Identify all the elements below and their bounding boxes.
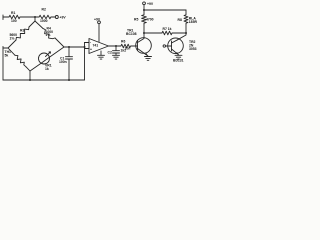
resistor R2 [38, 15, 52, 19]
wire bridge arm bottom-right upper [49, 47, 64, 57]
wire Q2 emitter lead [178, 54, 180, 56]
svg-text:+9V: +9V [94, 18, 101, 22]
node riser crossing [84, 46, 86, 48]
resistor R3 (bridge top-left arm) [16, 27, 29, 40]
capacitor C1 [66, 57, 73, 59]
wire bridge output to op-amp [64, 46, 85, 48]
svg-text:1k: 1k [45, 67, 49, 71]
terminal: left supply tick [2, 15, 4, 20]
svg-text:+: + [90, 47, 92, 51]
wire 0V bottom rail [3, 79, 85, 81]
svg-text:R5: R5 [134, 17, 138, 21]
terminal ring Q2 base [163, 45, 165, 47]
ground Q1 [145, 57, 152, 61]
svg-text:1%: 1% [10, 36, 15, 40]
thermistor TH1 (bridge bottom-left arm) [15, 55, 26, 67]
svg-text:+9V: +9V [60, 15, 67, 19]
op-amp V- pin [100, 51, 102, 55]
node A junction [34, 16, 36, 18]
wire R1 to node A [21, 16, 38, 18]
wire top supply rail right [144, 9, 186, 11]
wire bridge arm bottom-left upper [8, 48, 15, 55]
wire Q2 base feed [166, 45, 172, 47]
ground C2 [113, 55, 120, 59]
Q2 emitter arrow [176, 52, 179, 55]
svg-text:5k: 5k [5, 54, 9, 58]
node bridge bottom junction [29, 79, 31, 81]
svg-text:3053: 3053 [189, 47, 197, 51]
wire R5 bottom lead [143, 24, 145, 33]
svg-text:1000: 1000 [40, 19, 48, 23]
svg-text:100n: 100n [59, 60, 67, 64]
wire right riser to op-amp input [84, 43, 86, 81]
wire bridge bottom node stub [29, 71, 31, 80]
svg-text:BC108: BC108 [126, 32, 137, 36]
resistor R6 [120, 44, 132, 48]
svg-text:+9V: +9V [147, 2, 154, 6]
resistor R1 [8, 15, 21, 19]
wire op-amp output [109, 45, 121, 47]
wire node A to bridge top [34, 17, 36, 21]
wire R2 to terminal [52, 16, 55, 18]
wire bridge left node to left rail [3, 47, 8, 49]
ground op-amp [98, 55, 105, 59]
wire C2 lower lead [115, 53, 117, 55]
resistor R4 (bridge top-right arm) [43, 29, 55, 39]
svg-text:-: - [90, 40, 91, 44]
wire R7 to junction [173, 32, 186, 34]
wire R5 top lead [143, 10, 145, 14]
resistor R5 [142, 14, 147, 24]
wire bridge arm top-left upper [29, 21, 35, 27]
svg-text:185R: 185R [189, 20, 198, 24]
variable resistor VR1 (circle with element) [39, 53, 50, 64]
wire +9V terminal drop [143, 5, 145, 10]
svg-text:1k2: 1k2 [121, 48, 127, 52]
transistor Q2 [168, 38, 184, 54]
node R7 relay junction [185, 32, 187, 34]
node C2 tap [115, 45, 117, 47]
node supply junction [143, 9, 145, 11]
svg-text:4700: 4700 [146, 17, 154, 21]
wire Q1 collector to R7 [144, 32, 161, 34]
wire bridge arm top-right upper [35, 21, 43, 29]
svg-text:R1: R1 [11, 11, 15, 15]
svg-text:R6: R6 [121, 40, 125, 44]
wire bridge arm bottom-left lower [26, 67, 30, 71]
svg-text:R7 1k: R7 1k [163, 27, 172, 31]
svg-text:R3: R3 [20, 29, 24, 33]
terminal +9V top [143, 2, 146, 5]
wire op-amp inverting input stub [85, 42, 90, 44]
wire R6 to Q1 base [132, 45, 138, 47]
relay coil RLA [184, 14, 188, 24]
wire C1 upper lead [68, 47, 70, 56]
node C1 tap [68, 46, 70, 48]
wire top rail left segment [3, 16, 8, 18]
wire relay bottom lead [185, 24, 187, 33]
svg-text:100: 100 [11, 19, 17, 23]
VR1 wiper arrow [46, 52, 51, 57]
wire left rail down [2, 47, 4, 81]
terminal +9V op-amp [98, 21, 101, 24]
terminal +9V left [55, 16, 58, 19]
svg-text:C2: C2 [108, 50, 112, 54]
wire bridge arm bottom-right lower [30, 63, 41, 71]
wire op-amp non-inverting input stub [85, 48, 90, 50]
node Q1 collector junction [143, 32, 145, 34]
resistor R7 [161, 31, 173, 35]
wire bridge arm top-left lower [8, 40, 16, 48]
op-amp V+ pin [98, 24, 100, 42]
wire C1 lower lead [68, 59, 70, 80]
wire C2 upper lead [115, 46, 117, 50]
node C1 on rail [68, 79, 70, 81]
svg-text:741: 741 [93, 44, 99, 48]
ground Q2 [175, 55, 182, 59]
wire junction down to Q2 collector [178, 33, 187, 40]
wire relay top lead [185, 10, 187, 14]
op-amp U1 741 [89, 39, 109, 54]
wire bridge arm top-right lower [55, 38, 64, 47]
svg-text:1%: 1% [46, 33, 51, 37]
Q1 emitter arrow [145, 53, 148, 56]
svg-text:BD131: BD131 [173, 58, 184, 62]
svg-text:R8: R8 [178, 18, 182, 22]
capacitor C2 [113, 51, 120, 53]
svg-text:R2: R2 [42, 8, 46, 12]
transistor Q1 [136, 38, 152, 54]
